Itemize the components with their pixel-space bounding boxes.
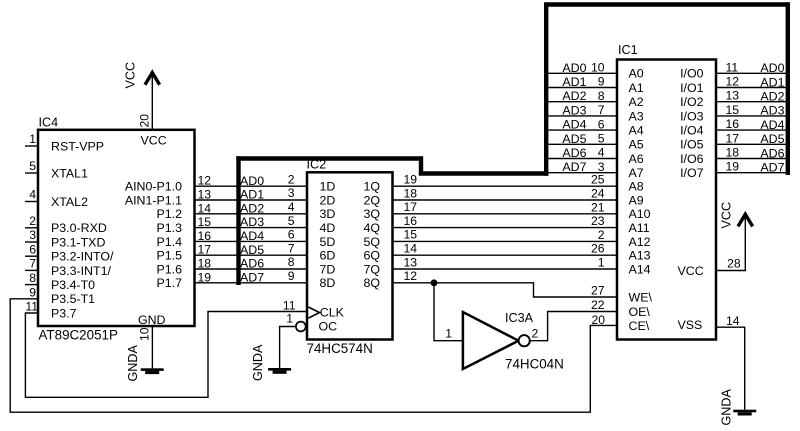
svg-text:P3.5-T1: P3.5-T1	[51, 292, 95, 306]
svg-text:17: 17	[726, 131, 740, 145]
svg-text:1: 1	[445, 327, 452, 341]
svg-text:8Q: 8Q	[363, 276, 380, 290]
IC4 pin 16 P1.4 / wire net AD4 to IC2 pin 6 (5D)	[157, 228, 308, 249]
svg-text:AD0: AD0	[760, 61, 784, 75]
svg-text:P1.5: P1.5	[157, 249, 183, 263]
svg-text:19: 19	[726, 160, 740, 174]
svg-text:AD6: AD6	[240, 257, 264, 271]
svg-text:OE\: OE\	[629, 305, 651, 319]
svg-text:P3.1-TXD: P3.1-TXD	[51, 235, 105, 249]
svg-text:A6: A6	[629, 152, 644, 166]
IC4 box (AT89C2051P microcontroller)	[38, 130, 195, 326]
wire bus to IC1 pin 8 (A2), net AD2	[548, 89, 617, 103]
svg-text:A13: A13	[629, 249, 651, 263]
svg-text:AD2: AD2	[760, 90, 784, 104]
IC4 pin 19 P1.7 / wire net AD7 to IC2 pin 9 (8D)	[157, 269, 308, 290]
svg-text:16: 16	[404, 214, 418, 228]
IC4 pin 14 P1.2 / wire net AD2 to IC2 pin 4 (3D)	[157, 200, 308, 221]
wire IC1 pin 11 (I/O0) to bus, net AD0	[716, 60, 788, 75]
svg-text:19: 19	[198, 270, 212, 284]
IC4 pin 5 XTAL1	[25, 159, 88, 180]
IC4 pin 1 RST-VPP	[25, 132, 104, 153]
IC4 pin 18 P1.6 / wire net AD6 to IC2 pin 8 (7D)	[157, 255, 308, 276]
svg-text:XTAL1: XTAL1	[51, 166, 88, 180]
svg-text:AD4: AD4	[562, 118, 586, 132]
svg-text:A8: A8	[629, 180, 644, 194]
IC4 pin 12 AIN0-P1.0 / wire net AD0 to IC2 pin 2 (1D)	[125, 172, 307, 193]
wire IC1 pin 19 (I/O7) to bus, net AD7	[716, 160, 788, 175]
wire bus to IC1 pin 6 (A4), net AD4	[548, 117, 617, 131]
svg-text:5: 5	[288, 214, 295, 228]
svg-text:26: 26	[591, 242, 605, 256]
svg-text:WE\: WE\	[629, 290, 653, 304]
svg-text:1Q: 1Q	[363, 180, 380, 194]
IC4 pin 6 P3.2-INTO/	[25, 242, 114, 263]
wire bus to IC1 pin 7 (A3), net AD3	[548, 103, 617, 117]
svg-text:24: 24	[591, 187, 605, 201]
svg-text:I/O5: I/O5	[680, 138, 704, 152]
svg-text:2: 2	[532, 327, 539, 341]
svg-text:AT89C2051P: AT89C2051P	[39, 328, 118, 343]
svg-text:P3.4-T0: P3.4-T0	[51, 278, 95, 292]
svg-text:A3: A3	[629, 109, 644, 123]
svg-text:4D: 4D	[320, 221, 336, 235]
wire IC1 pin 16 (I/O4) to bus, net AD4	[716, 117, 788, 132]
svg-text:14: 14	[404, 242, 418, 256]
svg-text:9: 9	[288, 269, 295, 283]
svg-text:17: 17	[404, 200, 418, 214]
svg-text:2Q: 2Q	[363, 193, 380, 207]
svg-text:4: 4	[288, 200, 295, 214]
IC4 pin 15 P1.3 / wire net AD3 to IC2 pin 5 (4D)	[157, 214, 308, 235]
svg-text:6: 6	[598, 117, 605, 131]
svg-text:4: 4	[29, 188, 36, 202]
svg-text:A14: A14	[629, 262, 651, 276]
wire IC2 pin 13 (7Q) to IC1 pin 1 (A14)	[393, 255, 618, 269]
wire IC2 pin 19 (1Q) to IC1 pin 25 (A8)	[393, 173, 618, 187]
svg-text:3: 3	[29, 228, 36, 242]
svg-text:A7: A7	[629, 166, 644, 180]
svg-text:2D: 2D	[320, 193, 336, 207]
svg-text:A2: A2	[629, 95, 644, 109]
svg-text:AD2: AD2	[240, 201, 264, 215]
IC4 pin 20 VCC power pin with VCC arrow symbol	[138, 73, 167, 148]
svg-text:12: 12	[726, 75, 740, 89]
svg-text:18: 18	[198, 257, 212, 271]
svg-text:23: 23	[591, 214, 605, 228]
svg-text:AD4: AD4	[240, 229, 264, 243]
IC4 pin 11 P3.7 (wire runs to IC2 CLK)	[25, 300, 307, 398]
svg-text:11: 11	[726, 60, 739, 74]
svg-text:GNDA: GNDA	[720, 389, 734, 426]
bus: vertical segment left of IC2 inputs	[236, 156, 240, 285]
svg-text:8: 8	[288, 255, 295, 269]
svg-text:1: 1	[598, 256, 605, 270]
wire bus to IC1 pin 3 (A7), net AD7	[548, 160, 617, 174]
wire bus to IC1 pin 10 (A0), net AD0	[548, 61, 617, 75]
svg-text:8D: 8D	[320, 276, 336, 290]
svg-text:AD1: AD1	[240, 188, 264, 202]
svg-text:P1.6: P1.6	[157, 262, 183, 276]
IC1 box (SRAM)	[617, 60, 716, 340]
IC2 box (74HC574N octal latch)	[307, 172, 393, 339]
IC4 pin 9 P3.5-T1 (wire runs to IC1 CE\)	[10, 285, 617, 412]
svg-text:IC4: IC4	[39, 116, 59, 130]
svg-text:I/O6: I/O6	[680, 152, 704, 166]
svg-text:4Q: 4Q	[363, 221, 380, 235]
svg-text:6D: 6D	[320, 249, 336, 263]
bus: vertical jog segment right of IC2	[419, 156, 423, 173]
svg-text:CLK: CLK	[320, 305, 345, 319]
svg-text:12: 12	[404, 269, 418, 283]
svg-text:A4: A4	[629, 124, 644, 138]
svg-text:AD5: AD5	[760, 132, 784, 146]
svg-text:I/O1: I/O1	[680, 81, 704, 95]
svg-text:10: 10	[138, 327, 152, 341]
svg-text:A12: A12	[629, 235, 651, 249]
svg-text:AD0: AD0	[240, 174, 264, 188]
svg-text:8: 8	[29, 271, 36, 285]
svg-text:13: 13	[726, 89, 740, 103]
svg-text:5D: 5D	[320, 235, 336, 249]
wire IC2 pin 12 (8Q) to IC1 pin 27 (WE\)	[393, 269, 618, 297]
svg-text:A0: A0	[629, 67, 644, 81]
svg-text:9: 9	[29, 285, 36, 299]
svg-text:OC: OC	[319, 319, 338, 333]
bus: horizontal segment above IC2	[236, 156, 421, 160]
wire junction to IC3A input pin 1	[434, 283, 462, 341]
svg-text:15: 15	[404, 228, 418, 242]
svg-text:16: 16	[198, 229, 212, 243]
wire IC2 pin 18 (2Q) to IC1 pin 24 (A9)	[393, 186, 618, 200]
wire IC2 pin 16 (4Q) to IC1 pin 23 (A11)	[393, 214, 618, 228]
svg-text:I/O2: I/O2	[680, 95, 704, 109]
svg-text:AD6: AD6	[562, 146, 586, 160]
wire IC1 pin 17 (I/O5) to bus, net AD5	[716, 131, 788, 146]
svg-text:6Q: 6Q	[363, 249, 380, 263]
bus: left vertical riser at IC1	[544, 5, 548, 176]
wire IC1 pin 13 (I/O2) to bus, net AD2	[716, 89, 788, 104]
svg-text:5: 5	[29, 159, 36, 173]
svg-text:A10: A10	[629, 207, 651, 221]
svg-text:AD7: AD7	[562, 160, 586, 174]
IC4 pin 3 P3.1-TXD	[25, 228, 105, 249]
svg-text:AD2: AD2	[562, 89, 586, 103]
svg-text:7: 7	[598, 103, 605, 117]
svg-text:GNDA: GNDA	[251, 344, 265, 381]
svg-text:P1.2: P1.2	[157, 207, 183, 221]
svg-text:28: 28	[727, 257, 741, 271]
IC4 pin 10 GND with GNDA ground symbol	[138, 313, 166, 374]
svg-text:P1.4: P1.4	[157, 235, 183, 249]
svg-text:A11: A11	[629, 221, 650, 235]
svg-text:AD1: AD1	[760, 75, 784, 89]
svg-text:1: 1	[286, 312, 293, 326]
svg-text:AD5: AD5	[240, 243, 264, 257]
wire IC2 pin 15 (5Q) to IC1 pin 2 (A12)	[393, 228, 618, 242]
junction node on 8Q net	[431, 279, 438, 286]
wire bus to IC1 pin 5 (A5), net AD5	[548, 132, 617, 146]
svg-text:I/O7: I/O7	[680, 166, 704, 180]
svg-text:VCC: VCC	[720, 202, 734, 229]
svg-text:VCC: VCC	[141, 133, 167, 147]
svg-text:11: 11	[25, 300, 38, 314]
svg-text:3: 3	[598, 160, 605, 174]
svg-text:AD7: AD7	[240, 270, 264, 284]
svg-text:14: 14	[726, 314, 740, 328]
svg-text:74HC574N: 74HC574N	[307, 341, 373, 356]
svg-text:6: 6	[288, 228, 295, 242]
wire bus to IC1 pin 4 (A6), net AD6	[548, 146, 617, 160]
svg-text:18: 18	[726, 146, 740, 160]
IC1 pin 28 VCC with VCC arrow symbol	[678, 214, 753, 278]
IC4 pin 2 P3.0-RXD	[25, 214, 107, 235]
wire IC1 pin 18 (I/O6) to bus, net AD6	[716, 146, 788, 161]
bus: top horizontal segment over IC1	[544, 2, 788, 6]
svg-text:25: 25	[591, 173, 605, 187]
svg-text:7D: 7D	[320, 262, 336, 276]
svg-text:P1.3: P1.3	[157, 221, 183, 235]
svg-text:IC3A: IC3A	[505, 311, 534, 325]
svg-text:I/O0: I/O0	[680, 67, 704, 81]
bus: right vertical riser at IC1	[786, 2, 790, 175]
svg-text:AD5: AD5	[562, 132, 586, 146]
svg-text:3: 3	[288, 186, 295, 200]
svg-text:15: 15	[198, 215, 212, 229]
svg-text:2: 2	[288, 172, 295, 186]
svg-text:16: 16	[726, 117, 740, 131]
svg-text:AIN0-P1.0: AIN0-P1.0	[125, 180, 182, 194]
svg-text:18: 18	[404, 186, 418, 200]
svg-text:10: 10	[591, 61, 605, 75]
svg-text:1D: 1D	[320, 180, 336, 194]
svg-text:A9: A9	[629, 193, 644, 207]
svg-text:6: 6	[29, 242, 36, 256]
svg-text:AD3: AD3	[240, 215, 264, 229]
svg-text:P3.7: P3.7	[51, 306, 77, 320]
svg-text:RST-VPP: RST-VPP	[51, 139, 104, 153]
svg-text:27: 27	[591, 283, 605, 297]
svg-text:8: 8	[598, 89, 605, 103]
svg-text:21: 21	[591, 200, 605, 214]
svg-text:CE\: CE\	[629, 319, 650, 333]
svg-text:VCC: VCC	[124, 62, 138, 89]
svg-text:P1.7: P1.7	[157, 276, 183, 290]
svg-text:AD6: AD6	[760, 146, 784, 160]
svg-text:XTAL2: XTAL2	[51, 195, 88, 209]
svg-text:AD4: AD4	[760, 118, 784, 132]
wire IC3A output pin 2 to IC1 pin 22 (OE\)	[530, 298, 617, 341]
bus: horizontal segment from jog to left bus riser	[419, 171, 549, 175]
svg-text:20: 20	[138, 114, 152, 128]
IC4 pin 17 P1.5 / wire net AD5 to IC2 pin 7 (6D)	[157, 241, 308, 262]
IC4 pin 7 P3.3-INT1/	[25, 257, 111, 278]
svg-text:IC1: IC1	[618, 43, 638, 57]
svg-text:4: 4	[598, 146, 605, 160]
svg-text:2: 2	[598, 228, 605, 242]
IC4 pin 8 P3.4-T0	[25, 271, 95, 292]
svg-text:VSS: VSS	[678, 318, 703, 332]
wire bus to IC1 pin 9 (A1), net AD1	[548, 75, 617, 89]
svg-text:12: 12	[198, 174, 212, 188]
svg-text:AD3: AD3	[562, 103, 586, 117]
svg-text:GNDA: GNDA	[126, 345, 140, 382]
svg-text:13: 13	[198, 188, 212, 202]
IC4 pin 4 XTAL2	[25, 188, 88, 209]
svg-text:A5: A5	[629, 138, 644, 152]
wire IC1 pin 12 (I/O1) to bus, net AD1	[716, 75, 788, 90]
svg-text:74HC04N: 74HC04N	[505, 357, 564, 372]
svg-text:VCC: VCC	[678, 264, 704, 278]
svg-text:9: 9	[598, 75, 605, 89]
svg-text:11: 11	[283, 299, 296, 313]
svg-text:I/O4: I/O4	[680, 124, 704, 138]
svg-text:AD0: AD0	[562, 61, 586, 75]
svg-text:19: 19	[404, 173, 418, 187]
IC4 pin 13 AIN1-P1.1 / wire net AD1 to IC2 pin 3 (2D)	[125, 186, 307, 207]
svg-text:A1: A1	[629, 81, 644, 95]
svg-text:2: 2	[29, 214, 36, 228]
svg-text:P3.0-RXD: P3.0-RXD	[51, 221, 107, 235]
svg-text:20: 20	[591, 313, 605, 327]
svg-text:I/O3: I/O3	[680, 109, 704, 123]
svg-text:13: 13	[404, 255, 418, 269]
IC1 pin 14 VSS with GNDA ground symbol	[678, 314, 757, 416]
wire IC2 pin 17 (3Q) to IC1 pin 21 (A10)	[393, 200, 618, 214]
svg-text:AD1: AD1	[562, 75, 586, 89]
svg-text:5Q: 5Q	[363, 235, 380, 249]
wire IC2 pin 14 (6Q) to IC1 pin 26 (A13)	[393, 242, 618, 256]
svg-text:AD7: AD7	[760, 161, 784, 175]
IC3A output bubble	[519, 335, 530, 346]
svg-text:7Q: 7Q	[363, 262, 380, 276]
svg-text:22: 22	[591, 298, 605, 312]
wire IC1 pin 15 (I/O3) to bus, net AD3	[716, 103, 788, 118]
svg-text:3Q: 3Q	[363, 207, 380, 221]
op-amp style triangle: inverter IC3A (74HC04N)	[463, 312, 519, 369]
svg-text:3D: 3D	[320, 207, 336, 221]
svg-text:7: 7	[29, 257, 36, 271]
svg-text:1: 1	[29, 132, 36, 146]
svg-text:P3.2-INTO/: P3.2-INTO/	[51, 250, 114, 264]
svg-text:17: 17	[198, 243, 212, 257]
svg-text:AD3: AD3	[760, 104, 784, 118]
svg-text:P3.3-INT1/: P3.3-INT1/	[51, 264, 111, 278]
svg-text:14: 14	[198, 201, 212, 215]
svg-text:15: 15	[726, 103, 740, 117]
svg-text:AIN1-P1.1: AIN1-P1.1	[125, 193, 182, 207]
svg-text:5: 5	[598, 132, 605, 146]
svg-text:GND: GND	[138, 313, 166, 327]
svg-text:7: 7	[288, 241, 295, 255]
IC2 pin 1 OC (active-low enable, bubble) with ground	[268, 312, 337, 374]
IC2 pin 11 CLK (clock input triangle)	[283, 299, 345, 320]
